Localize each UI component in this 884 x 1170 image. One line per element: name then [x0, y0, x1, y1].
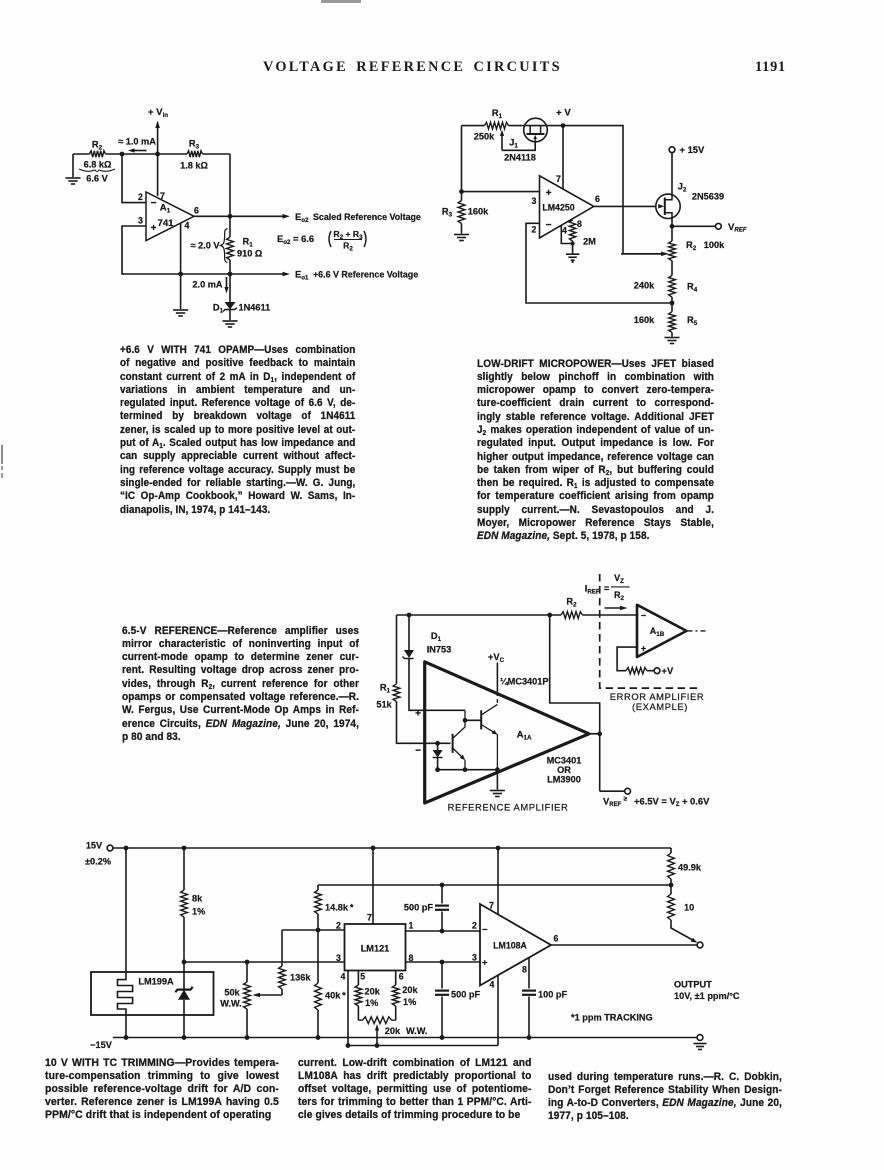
ground below D1 [223, 321, 238, 327]
svg-text:8: 8 [522, 965, 527, 975]
pin 3 label [138, 216, 143, 226]
resistor R3 160k [442, 201, 489, 234]
pin 8 label LM108A [522, 965, 527, 975]
transistor J2 2N5639 [656, 182, 724, 219]
svg-text:R3: R3 [189, 139, 200, 151]
svg-text:LM199A: LM199A [138, 977, 174, 987]
svg-text:2N4118: 2N4118 [504, 153, 536, 163]
svg-text:6: 6 [194, 206, 199, 216]
wire dashed box error amp [600, 574, 700, 688]
pin 4 label c2 [562, 226, 567, 236]
svg-text:3: 3 [532, 196, 537, 206]
svg-text:500 pF: 500 pF [404, 903, 433, 913]
svg-text:−: − [546, 220, 552, 231]
svg-text:R5: R5 [687, 315, 698, 327]
svg-text:D1: D1 [213, 303, 224, 315]
svg-text:IREF: IREF [585, 584, 600, 596]
svg-text:R1: R1 [380, 683, 391, 695]
pin 2 label [138, 192, 143, 202]
pin 7 label LM108A [489, 901, 494, 911]
svg-text:7: 7 [556, 174, 561, 184]
svg-text:100 pF: 100 pF [538, 990, 567, 1000]
svg-text:910 Ω: 910 Ω [237, 249, 262, 259]
wire A1B plus input [617, 647, 637, 671]
wire plus input node [436, 710, 467, 722]
scan artifact top [321, 0, 361, 3]
op-amp A1B [637, 605, 687, 657]
svg-text:+: + [415, 709, 421, 720]
svg-text:+V: +V [662, 665, 674, 676]
node junction +Vin [155, 152, 160, 157]
pin 2 label c2 [532, 225, 537, 235]
svg-text:20k: 20k [365, 987, 381, 997]
svg-text:+: + [151, 223, 157, 234]
label IREF equation [585, 573, 630, 602]
resistor 136k [279, 930, 312, 995]
svg-text:R2: R2 [343, 241, 353, 253]
wire top rail c4 [113, 846, 671, 851]
box LM121 [345, 924, 406, 971]
svg-text:R2: R2 [92, 140, 103, 152]
svg-text:*1 ppm TRACKING: *1 ppm TRACKING [571, 1013, 653, 1023]
svg-text:−: − [641, 610, 646, 620]
label +V supply [556, 108, 571, 129]
op-amp A1 741 [146, 192, 194, 241]
label Eo2 output [295, 211, 421, 224]
svg-text:+VC: +VC [488, 651, 505, 664]
resistor R4 240k [634, 261, 698, 312]
label minus input c3 [415, 746, 421, 757]
label 1.0 mA current [118, 137, 156, 153]
page number 1191 [755, 59, 786, 76]
svg-text:OR: OR [557, 765, 571, 775]
pin 4 label LM108A [490, 980, 495, 990]
wire -15V rail [113, 1035, 697, 1040]
wire pin7 LM121 [372, 848, 374, 924]
svg-text:100k: 100k [704, 240, 725, 250]
diode D1 zener 1N4611 [213, 274, 270, 320]
svg-text:REFERENCE AMPLIFIER: REFERENCE AMPLIFIER [448, 802, 569, 813]
scan artifact left edge [1, 445, 3, 464]
resistor 20k 1% right [392, 971, 418, 1021]
wire minus input node [426, 741, 451, 746]
node ground terminal right [694, 1035, 707, 1050]
svg-text:+ Vin: + Vin [148, 107, 168, 119]
wire IREF arrow [605, 606, 628, 611]
pin 4 label LM121 [341, 972, 346, 982]
wire pin7 supply [157, 154, 159, 196]
svg-text:2M: 2M [583, 237, 596, 247]
svg-text:+ 15V: + 15V [680, 144, 706, 155]
svg-text:+: + [641, 643, 646, 653]
svg-text:4: 4 [185, 221, 190, 231]
svg-text:10: 10 [684, 903, 694, 913]
svg-text:2N5639: 2N5639 [692, 192, 724, 202]
wire Q1 collector to Q2 base [465, 719, 481, 721]
svg-text:J1: J1 [509, 138, 518, 150]
wire left branch LM199A [125, 848, 127, 972]
ground below 2M [566, 254, 580, 263]
svg-text:1%: 1% [192, 907, 205, 917]
resistor 20k WW pot [358, 1017, 427, 1036]
svg-text:5: 5 [360, 972, 365, 982]
resistor 14.8k [315, 885, 354, 930]
pin 6 label [194, 206, 199, 216]
op-amp LM108A [480, 904, 551, 986]
resistor 50k WW pot [220, 962, 250, 1038]
svg-text:7: 7 [160, 191, 165, 201]
node VREF terminal [672, 222, 747, 234]
svg-text:−: − [415, 746, 421, 757]
wire output LM108A [551, 944, 697, 946]
svg-text:R3: R3 [442, 207, 453, 219]
box LM199A [91, 972, 214, 1015]
pin 7 label c2 [556, 174, 561, 184]
svg-text:741: 741 [157, 218, 174, 229]
wire pin2 feedback c2 [526, 223, 672, 303]
node output terminal [697, 942, 703, 948]
svg-text:1: 1 [409, 921, 414, 931]
ground left of R2 [66, 154, 81, 184]
svg-text:+6.6 V Reference Voltage: +6.6 V Reference Voltage [313, 270, 418, 280]
svg-text:Eo1: Eo1 [295, 269, 309, 282]
transistor Q2 [481, 704, 497, 769]
wire R2 to output loop [550, 615, 602, 791]
wire pin4 to ground [180, 223, 182, 309]
svg-text:R2: R2 [614, 590, 625, 602]
wire 885 line [318, 883, 673, 888]
label 1ppm TRACKING [571, 1013, 653, 1023]
wire pin3 input c2 [462, 191, 540, 193]
transistor J1 2N4118 JFET [504, 118, 547, 162]
wire top rail c3 [397, 613, 638, 618]
resistor R1 [227, 216, 263, 274]
svg-text:240k: 240k [634, 281, 655, 291]
svg-text:LM3900: LM3900 [547, 774, 581, 784]
wire emitter rail c3 [435, 767, 500, 772]
svg-text:3: 3 [472, 953, 477, 963]
svg-text:1.8 kΩ: 1.8 kΩ [180, 161, 208, 171]
label 2.0 V brace [190, 229, 227, 263]
pin 6 label LM108A [554, 934, 559, 944]
resistor R1 trimmer 250k [474, 108, 509, 142]
label 6.8 kOhm value [79, 160, 115, 184]
diode zener LM199A [175, 962, 192, 1038]
wire A1B output dashes [688, 630, 709, 632]
svg-text:¼MC3401P: ¼MC3401P [500, 677, 549, 687]
svg-text:20k: 20k [385, 1026, 401, 1036]
resistor 10 [668, 885, 695, 920]
wire output Eo2 [194, 214, 290, 219]
svg-text:2: 2 [532, 225, 537, 235]
wire pin3 row c4 [184, 960, 345, 965]
resistor R3 [180, 139, 208, 171]
svg-text:4: 4 [490, 980, 495, 990]
wire pin7 LM108A [497, 848, 499, 915]
ground below op-amp [173, 310, 188, 316]
svg-text:Scaled Reference Voltage: Scaled Reference Voltage [313, 212, 421, 222]
svg-text:−15V: −15V [90, 1040, 113, 1050]
pin 2 label LM108A [472, 921, 477, 931]
svg-text:49.9k: 49.9k [678, 863, 702, 873]
svg-text:6: 6 [399, 972, 404, 982]
label OUTPUT [674, 980, 740, 1002]
wire pin2 feedback [122, 154, 146, 203]
wire output to J2 gate [594, 205, 656, 207]
wire right vertical c1 [229, 154, 231, 216]
svg-text:14.8k *: 14.8k * [325, 903, 354, 913]
capacitor 500pF bottom [435, 962, 480, 1038]
wire left branch c2 [459, 126, 464, 201]
wire J2 source to VREF [670, 218, 675, 241]
node junction feedback [120, 152, 125, 157]
wire top rail c1 [73, 153, 230, 155]
svg-text:R1: R1 [243, 237, 254, 249]
label -15V [90, 1040, 113, 1050]
capacitor 100pF [522, 958, 567, 1038]
wire pin4 LM121 [346, 971, 351, 1048]
svg-text:R1: R1 [492, 108, 503, 120]
wire pin2 row c4 [282, 928, 345, 933]
transistor Q1 mirror [453, 710, 466, 769]
resistor bias error amp [626, 665, 674, 676]
pin 3 label c2 [532, 196, 537, 206]
wire output apex [589, 733, 600, 735]
wire 10 wiper to output [671, 920, 698, 943]
svg-text:R2: R2 [686, 240, 697, 252]
svg-text:LM108A: LM108A [493, 940, 527, 950]
svg-text:+: + [546, 188, 552, 199]
node +Vc supply [488, 651, 505, 703]
resistor R5 160k [634, 312, 698, 337]
svg-text:10V, ±1 ppm/°C: 10V, ±1 ppm/°C [674, 991, 740, 1001]
svg-text:D1: D1 [431, 631, 442, 643]
svg-text:W.W.: W.W. [220, 999, 241, 1009]
svg-text:=: = [604, 584, 609, 594]
resistor 20k 1% left [355, 971, 381, 1021]
svg-text:6: 6 [595, 194, 600, 204]
diode D1 zener IN753 [403, 615, 452, 710]
pin 7 label [160, 191, 165, 201]
resistor R2 pot 100k [669, 240, 726, 261]
node VREF c3 [600, 788, 710, 808]
svg-text:R2: R2 [566, 597, 577, 609]
wire J1 gate to R1 wiper [500, 130, 535, 151]
pin 4 label [185, 221, 190, 231]
svg-text:+: + [482, 958, 488, 969]
wire lower rail c1 [122, 272, 290, 277]
svg-text:Eo2: Eo2 [277, 233, 291, 246]
svg-text:VZ: VZ [614, 573, 624, 585]
label MC3401 OR LM3900 [547, 756, 582, 785]
svg-text:Eo2: Eo2 [295, 211, 309, 224]
resistor R1 51k c3 [376, 615, 426, 743]
svg-text:7: 7 [367, 913, 372, 923]
svg-text:51k: 51k [376, 700, 392, 710]
svg-text:3: 3 [336, 953, 341, 963]
svg-text:1N4611: 1N4611 [239, 303, 271, 313]
svg-text:7: 7 [489, 901, 494, 911]
node 15V terminal [85, 841, 113, 867]
pin 8 label c2 [577, 219, 582, 229]
svg-text:136k: 136k [290, 973, 311, 983]
svg-text:(EXAMPLE): (EXAMPLE) [632, 701, 688, 712]
wire pin3 input [122, 226, 146, 274]
pin 5 label LM121 [360, 972, 365, 982]
ground below R5 [665, 338, 680, 344]
node +Vin supply [148, 107, 168, 154]
svg-text:4: 4 [562, 226, 567, 236]
wire top rail c2 [462, 126, 665, 254]
pin 6 label c2 [595, 194, 600, 204]
svg-text:≥: ≥ [624, 796, 628, 803]
svg-text:160k: 160k [634, 315, 655, 325]
svg-text:R4: R4 [687, 282, 698, 294]
svg-text:50k: 50k [224, 988, 240, 998]
svg-text:≈ 1.0 mA: ≈ 1.0 mA [118, 137, 156, 147]
pin 1 label LM121 [409, 921, 414, 931]
resistor R2 c3 [561, 597, 583, 619]
svg-text:250k: 250k [474, 132, 495, 142]
op-amp LM4250 [540, 176, 594, 238]
svg-text:IN753: IN753 [427, 645, 452, 655]
svg-text:2: 2 [336, 921, 341, 931]
svg-text:ERROR AMPLIFIER: ERROR AMPLIFIER [610, 691, 704, 702]
label quarter MC3401P [500, 677, 549, 687]
svg-text:≈ 2.0 V: ≈ 2.0 V [190, 241, 220, 251]
svg-text:2: 2 [138, 192, 143, 202]
resistor 49.9k [668, 848, 702, 885]
label ERROR AMPLIFIER [610, 691, 704, 712]
svg-text:VREF: VREF [603, 795, 622, 808]
svg-text:1%: 1% [365, 998, 378, 1008]
svg-text:6.8 kΩ: 6.8 kΩ [84, 160, 112, 170]
svg-text:2.0 mA: 2.0 mA [192, 280, 222, 290]
svg-text:OUTPUT: OUTPUT [674, 980, 712, 990]
pin 7 label LM121 [367, 913, 372, 923]
svg-text:+ V: + V [556, 108, 571, 119]
pin 8 label LM121 [409, 953, 414, 963]
svg-text:8k: 8k [192, 894, 203, 904]
svg-text:J2: J2 [678, 182, 687, 194]
wire 20k wiper [375, 1024, 380, 1048]
resistor 2M and pin4 [561, 220, 596, 254]
svg-text:6: 6 [554, 934, 559, 944]
svg-text:VREF: VREF [728, 222, 747, 234]
label Eo1 output [295, 269, 418, 282]
label 2.0 mA current [192, 277, 228, 294]
wire 50k wiper from 136k [253, 993, 283, 998]
svg-text:20k: 20k [402, 985, 418, 995]
wire pin4 rail [348, 1045, 498, 1047]
page header title [263, 59, 562, 76]
svg-text:8: 8 [577, 219, 582, 229]
pin 3 label LM121 [336, 953, 341, 963]
pin 3 label LM108A [472, 953, 477, 963]
label plus input c3 [415, 709, 421, 720]
ground inside A1A [490, 770, 505, 797]
svg-text:500 pF: 500 pF [451, 990, 480, 1000]
wire R2 wiper arrow [621, 252, 669, 257]
svg-text:2: 2 [472, 921, 477, 931]
label REFERENCE AMPLIFIER [448, 802, 569, 813]
svg-text:−: − [482, 925, 488, 936]
diode mirror [433, 743, 443, 769]
svg-text:W.W.: W.W. [406, 1026, 427, 1036]
svg-text:A1A: A1A [517, 729, 532, 741]
svg-text:+6.5V = VZ + 0.6V: +6.5V = VZ + 0.6V [634, 795, 710, 808]
pin 2 label LM121 [336, 921, 341, 931]
label equation Eo2 [277, 229, 366, 253]
resistor 8k 1% [181, 848, 206, 964]
svg-text:160k: 160k [468, 207, 489, 217]
ground below R3 [454, 235, 469, 241]
svg-text:1%: 1% [403, 997, 416, 1007]
op-amp A1A triangle [425, 662, 589, 803]
svg-text:= 6.6: = 6.6 [293, 233, 314, 244]
svg-text:LM4250: LM4250 [542, 203, 574, 213]
svg-text:6.6 V: 6.6 V [86, 174, 108, 184]
svg-text:3: 3 [138, 216, 143, 226]
capacitor 500pF top [404, 885, 449, 931]
svg-text:A1B: A1B [650, 626, 665, 638]
pin 6 label LM121 [399, 972, 404, 982]
wire pin7 supply c2 [562, 126, 564, 189]
svg-text:LM121: LM121 [361, 944, 390, 954]
heater LM199A [118, 972, 133, 1038]
wire pin4 LM108A [497, 975, 499, 1045]
svg-text:−: − [151, 198, 157, 209]
resistor R2 [90, 140, 106, 158]
svg-text:15V: 15V [86, 841, 103, 851]
wire pin1 row [406, 929, 481, 934]
node +15V terminal [669, 144, 705, 194]
resistor 40k [315, 930, 347, 1038]
svg-text:±0.2%: ±0.2% [85, 857, 111, 867]
svg-text:4: 4 [341, 972, 346, 982]
wire pin8 row [406, 960, 481, 965]
svg-text:40k *: 40k * [325, 991, 346, 1001]
